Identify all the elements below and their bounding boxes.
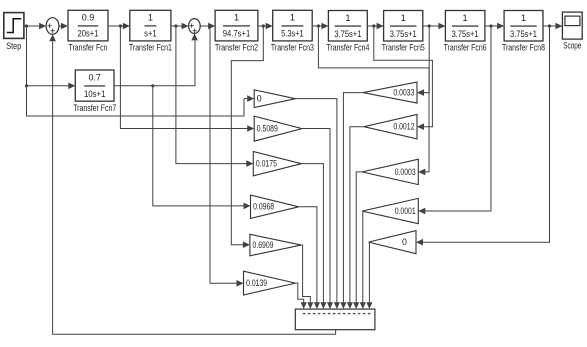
gain block G8 value 0.0012 (points left) <box>364 115 417 139</box>
svg-text:Transfer Fcn4: Transfer Fcn4 <box>326 43 369 53</box>
wire tap Step output down to Transfer Fcn7 input and gain G1 <box>25 26 254 116</box>
svg-text:1: 1 <box>345 13 350 23</box>
svg-text:0.7: 0.7 <box>88 72 101 82</box>
gain block G6 value 0.0139 (points right) <box>244 271 296 295</box>
svg-text:3.75s+1: 3.75s+1 <box>452 29 479 39</box>
wire gain G7 (0.0033) output to sum input 7 <box>340 93 363 309</box>
svg-text:1: 1 <box>401 13 406 23</box>
wire Transfer Fcn to Transfer Fcn1 <box>108 23 130 30</box>
multi-input sum block (rectangle with dashed top) <box>295 309 375 330</box>
svg-text:0.9: 0.9 <box>82 13 95 23</box>
gain block G7 value 0.0033 (points left) <box>363 82 417 103</box>
svg-text:0.6909: 0.6909 <box>253 240 274 250</box>
svg-text:Transfer Fcn: Transfer Fcn <box>69 43 108 53</box>
wire gain G8 (0.0012) output to sum input 8 <box>347 127 364 309</box>
transfer function block Transfer Fcn8 (1/3.75s+1) <box>502 11 545 53</box>
wire gain G3 (0.0175) output to sum input 4 <box>301 164 326 309</box>
svg-text:0.5089: 0.5089 <box>257 124 278 134</box>
transfer function block Transfer Fcn4 (1/3.75s+1) <box>326 11 369 53</box>
wire gain G5 (0.6909) output to sum input 2 <box>301 245 313 309</box>
svg-text:Transfer Fcn2: Transfer Fcn2 <box>215 43 258 53</box>
transfer function block Transfer Fcn7 (0.7/10s+1) <box>73 70 116 113</box>
gain block G4 value 0.0968 (points right) <box>251 195 299 218</box>
wire Transfer Fcn5 to Transfer Fcn6 <box>423 23 446 30</box>
wire gain G2 (0.5089) output to sum input 5 <box>302 129 333 309</box>
svg-text:Transfer Fcn8: Transfer Fcn8 <box>502 43 545 53</box>
svg-text:1: 1 <box>521 13 526 23</box>
gain block G3 value 0.0175 (points right) <box>253 152 301 176</box>
svg-text:0: 0 <box>257 94 262 104</box>
svg-text:0.0139: 0.0139 <box>246 278 267 288</box>
svg-text:0: 0 <box>402 237 407 247</box>
svg-text:0.0968: 0.0968 <box>253 202 274 212</box>
svg-text:20s+1: 20s+1 <box>78 29 99 39</box>
wire tap sum U2 output down to gain G6 <box>210 26 244 287</box>
svg-text:1: 1 <box>290 13 295 23</box>
wire tap Transfer Fcn7 output down to gain G4 <box>153 86 251 209</box>
wire gain G9 (0.0003) output to sum input 9 <box>353 172 362 309</box>
gain block G1 value 0 (points right) <box>254 90 295 108</box>
scope block Scope <box>562 12 582 50</box>
svg-text:s+1: s+1 <box>144 29 157 39</box>
wire tap Transfer Fcn2 output to gain G5 <box>231 26 263 248</box>
transfer function block Transfer Fcn5 (1/3.75s+1) <box>382 11 425 53</box>
svg-text:1: 1 <box>234 13 239 23</box>
wire Transfer Fcn4 to Transfer Fcn5 <box>367 23 383 30</box>
gain block G5 value 0.6909 (points right) <box>250 234 301 256</box>
wire tap Transfer Fcn8 output to gain G11 <box>416 26 550 246</box>
svg-text:10s+1: 10s+1 <box>84 89 106 99</box>
wire Step to sum U1 <box>24 23 46 30</box>
svg-text:Transfer Fcn1: Transfer Fcn1 <box>129 43 172 53</box>
svg-text:5.3s+1: 5.3s+1 <box>281 29 304 39</box>
wire tap Transfer Fcn4 output to gain G8 <box>374 26 433 130</box>
svg-text:1: 1 <box>148 13 153 23</box>
svg-text:0.0003: 0.0003 <box>395 167 416 177</box>
wire Transfer Fcn7 output to sum U2 bottom input <box>114 33 198 87</box>
svg-text:0.0175: 0.0175 <box>256 159 277 169</box>
wire feedback from sum block bottom to sum U1 bottom input <box>49 34 335 334</box>
gain block G2 value 0.5089 (points right) <box>254 116 302 141</box>
transfer function block Transfer Fcn2 (1/94.7s+1) <box>215 10 258 52</box>
wire gain G10 (0.0001) output to sum input 10 <box>360 211 366 309</box>
svg-text:3.75s+1: 3.75s+1 <box>390 29 417 39</box>
transfer function block Transfer Fcn (0.9/20s+1) <box>68 10 108 52</box>
svg-text:Step: Step <box>6 41 21 51</box>
transfer function block Transfer Fcn6 (1/3.75s+1) <box>444 11 487 53</box>
svg-text:Transfer Fcn3: Transfer Fcn3 <box>271 43 314 53</box>
transfer function block Transfer Fcn3 (1/5.3s+1) <box>271 10 314 52</box>
svg-text:0.0033: 0.0033 <box>393 88 414 98</box>
svg-text:+: + <box>50 26 55 36</box>
svg-text:94.7s+1: 94.7s+1 <box>223 29 251 39</box>
svg-text:Transfer Fcn5: Transfer Fcn5 <box>382 43 425 53</box>
gain block G11 value 0 (points left) <box>369 231 416 254</box>
wire tap Transfer Fcn3 output to gain G9 <box>318 26 429 175</box>
step source block Step <box>4 13 24 51</box>
wire Transfer Fcn6 to Transfer Fcn8 <box>485 23 504 30</box>
wire tap Transfer Fcn5 output to gain G7 <box>417 26 429 96</box>
wire sum U2 to Transfer Fcn2 <box>200 23 215 30</box>
wire gain G6 (0.0139) output to sum input 1 <box>295 283 306 309</box>
wire Transfer Fcn2 to Transfer Fcn3 <box>258 23 273 30</box>
wire Transfer Fcn1 to sum U2 <box>171 23 189 30</box>
wire tap Transfer Fcn1 output down to gain G3 <box>176 26 253 167</box>
svg-text:1: 1 <box>463 13 468 23</box>
svg-text:Scope: Scope <box>563 41 581 51</box>
gain block G10 value 0.0001 (points left) <box>362 198 418 223</box>
wire gain G1 (0) output to sum input 6 <box>295 99 340 309</box>
svg-text:3.75s+1: 3.75s+1 <box>334 29 361 39</box>
wire tap Transfer Fcn6 output to gain G10 <box>418 26 491 214</box>
svg-text:0.0001: 0.0001 <box>395 206 416 216</box>
svg-text:Transfer Fcn7: Transfer Fcn7 <box>73 103 116 113</box>
wire gain G4 (0.0968) output to sum input 3 <box>299 207 320 309</box>
wire Transfer Fcn8 to Scope <box>543 23 562 30</box>
gain block G9 value 0.0003 (points left) <box>362 159 418 184</box>
transfer function block Transfer Fcn1 (1/s+1) <box>129 10 172 52</box>
svg-text:0.0012: 0.0012 <box>393 122 414 132</box>
wire sum U1 to Transfer Fcn <box>59 23 68 30</box>
wire Transfer Fcn3 to Transfer Fcn4 <box>312 23 328 30</box>
sum junction U1 (circle, inputs + +) <box>46 18 59 37</box>
wire tap Transfer Fcn output down to gain G2 <box>120 26 254 132</box>
sum junction U2 (circle, inputs + +) <box>189 19 201 36</box>
svg-text:Transfer Fcn6: Transfer Fcn6 <box>444 43 487 53</box>
svg-text:3.75s+1: 3.75s+1 <box>510 29 537 39</box>
wire gain G11 (0) output to sum input 11 <box>366 242 372 309</box>
